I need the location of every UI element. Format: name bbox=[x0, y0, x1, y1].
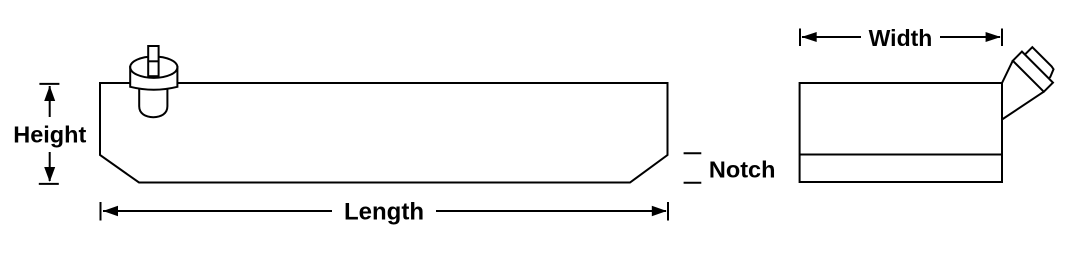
svg-text:Length: Length bbox=[344, 198, 424, 225]
svg-text:Height: Height bbox=[13, 121, 86, 147]
svg-text:Notch: Notch bbox=[709, 156, 776, 182]
svg-text:Width: Width bbox=[869, 25, 933, 51]
